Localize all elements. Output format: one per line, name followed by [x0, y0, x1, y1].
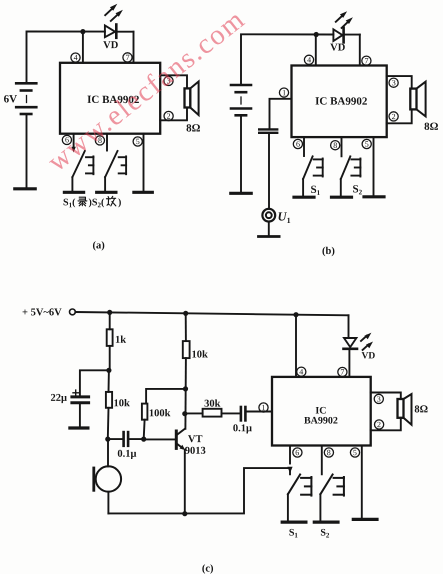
svg-text:30k: 30k — [204, 399, 221, 410]
svg-text:www.elecfans.com: www.elecfans.com — [42, 4, 251, 178]
svg-text:(a): (a) — [93, 240, 106, 251]
svg-text:0.1μ: 0.1μ — [117, 449, 136, 460]
svg-text:): ) — [118, 197, 121, 208]
svg-text:3: 3 — [377, 395, 381, 404]
svg-text:)S2(: )S2( — [89, 197, 105, 209]
svg-text:S2: S2 — [353, 183, 363, 196]
svg-text:VD: VD — [330, 43, 346, 54]
svg-text:(c): (c) — [202, 563, 214, 574]
svg-text:8Ω: 8Ω — [186, 122, 201, 134]
svg-text:8Ω: 8Ω — [424, 121, 439, 133]
svg-text:S2: S2 — [320, 528, 330, 540]
svg-text:VD: VD — [361, 351, 375, 361]
svg-text:8Ω: 8Ω — [414, 404, 428, 415]
svg-text:100k: 100k — [149, 408, 171, 419]
svg-text:1: 1 — [261, 403, 265, 412]
svg-text:7: 7 — [340, 368, 344, 377]
svg-text:VT: VT — [188, 434, 203, 445]
svg-text:6: 6 — [295, 448, 299, 457]
svg-text:BA9902: BA9902 — [304, 416, 338, 427]
svg-text:2: 2 — [392, 112, 396, 121]
svg-text:S1: S1 — [289, 528, 299, 540]
svg-text:4: 4 — [74, 53, 78, 62]
svg-text:S1: S1 — [311, 184, 321, 197]
svg-text:+ 5V~6V: + 5V~6V — [22, 307, 62, 318]
svg-text:8: 8 — [333, 141, 337, 150]
svg-text:6: 6 — [296, 140, 300, 149]
svg-text:6V: 6V — [4, 93, 18, 105]
svg-text:S1(: S1( — [63, 197, 76, 209]
svg-text:8: 8 — [327, 448, 331, 457]
svg-text:VD: VD — [103, 40, 119, 51]
svg-text:5: 5 — [365, 140, 369, 149]
svg-text:9013: 9013 — [185, 446, 206, 457]
svg-text:3: 3 — [392, 78, 396, 87]
svg-text:2: 2 — [377, 420, 381, 429]
svg-text:10k: 10k — [192, 349, 209, 360]
svg-text:IC BA9902: IC BA9902 — [315, 96, 368, 108]
svg-text:5: 5 — [353, 448, 357, 457]
svg-text:0.1μ: 0.1μ — [233, 423, 252, 434]
svg-text:10k: 10k — [113, 398, 130, 409]
svg-text:5: 5 — [136, 137, 140, 146]
svg-text:7: 7 — [365, 56, 369, 65]
svg-text:4: 4 — [307, 55, 311, 64]
svg-text:2: 2 — [167, 112, 171, 121]
svg-text:22μ: 22μ — [50, 393, 67, 404]
svg-text:7: 7 — [126, 53, 130, 62]
svg-text:(b): (b) — [322, 246, 335, 257]
svg-text:1: 1 — [282, 88, 286, 97]
svg-text:4: 4 — [299, 367, 303, 376]
svg-text:U1: U1 — [278, 210, 291, 226]
svg-text:1k: 1k — [115, 335, 126, 346]
